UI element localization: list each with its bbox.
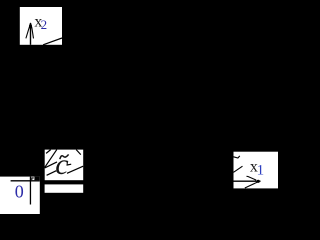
white window D (x1 axis tip) [234,152,279,189]
lower hatch stroke left [47,171,57,176]
x2 arrowhead right whisker [32,28,34,39]
chevron mark upper left [234,156,240,158]
white window B (vector c label) [45,150,83,181]
svg-text:0: 0 [15,181,24,201]
constraint line segment in window A [43,38,62,45]
x2 axis below origin [29,177,31,205]
white strip below window B [45,184,84,192]
x1 axis shaft [234,180,259,182]
x1 arrow tip [257,180,260,183]
lower line exiting right [67,166,83,173]
svg-text:c: c [55,148,68,181]
x1 arrowhead lower barb [245,182,259,188]
stroke lower left [234,166,243,172]
x1 arrowhead upper barb [247,176,257,180]
svg-text:1: 1 [257,163,265,179]
white window C (origin) [0,177,40,214]
small corner tick at origin [32,178,34,180]
hatch tick top-right [76,150,81,155]
tilde over c [60,154,69,159]
x2 axis shaft [30,23,32,45]
svg-text:2: 2 [41,17,48,32]
x1 axis segment through origin [11,180,40,182]
x2 arrowhead left whisker [26,28,29,39]
level line dash right of c [67,163,72,166]
steep constraint line [45,150,57,168]
level line left of c [45,162,57,168]
x2 arrowhead solid tip [29,22,33,28]
black notch at origin corner [34,177,39,181]
hatch tick top-left [46,150,51,154]
white window A (x2 axis tip) [20,7,62,45]
